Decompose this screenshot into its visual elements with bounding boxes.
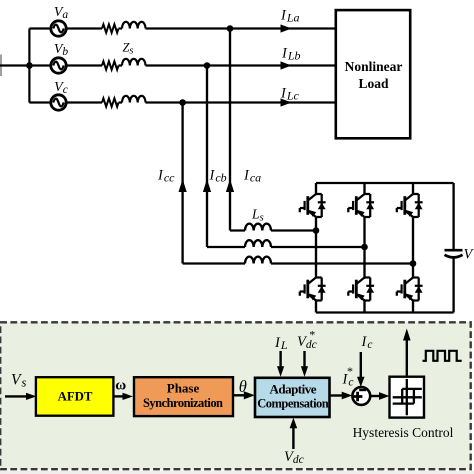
svg-text:Hysteresis Control: Hysteresis Control [353,425,454,440]
wire: IL input arrow [279,351,281,369]
wire: Ic input arrow [360,352,362,379]
svg-text:Icb: Icb [209,168,227,185]
wire: filter row 2 [207,246,365,248]
wire: feed from left edge to bus [0,64,29,66]
wire: leg 2 [363,183,365,313]
arrow Icb up [203,179,211,192]
svg-text:ILc: ILc [280,86,300,103]
inductor Ls row 2 [245,240,271,247]
control panel background [0,322,472,470]
wire: Vdc* input arrow [303,351,305,369]
arrow ILa [281,24,292,32]
wire: inverter top rail [316,182,454,184]
wire: dropper Ica [229,29,231,231]
svg-text:Synchronization: Synchronization [143,396,223,410]
wire: Phase to Adaptive arrow [232,394,245,396]
transistor Q2 bottom leg1 [300,278,326,301]
node phase a tap [227,25,234,32]
wire: bus to Vc [29,101,49,103]
arrow Ica up [226,179,234,192]
wire: phase c line [68,101,336,103]
resistor-inductor Zs phase c [102,96,146,107]
wire: phase b line [68,64,336,66]
node leg2 mid [361,244,368,251]
wire: bus to Va [29,27,49,29]
svg-text:Load: Load [358,76,389,91]
transistor Q3 top leg2 [348,194,374,217]
wire: Adaptive to sum arrow [330,394,343,396]
svg-text:Phase: Phase [167,381,200,396]
svg-text:ω: ω [115,378,126,394]
wire: hysteresis output arrow up [406,338,408,376]
wire: dropper Icc [181,103,183,264]
block hysteresis control [390,377,425,418]
wire: AFDT to Phase arrow [113,395,124,397]
wire: Vs input arrow [5,395,27,397]
capacitor Cdc [445,249,463,252]
transistor Q5 top leg3 [397,194,423,217]
arrow ILb [281,61,292,69]
svg-text:Ica: Ica [243,168,261,185]
resistor-inductor Zs phase b [102,59,146,70]
svg-text:Compensation: Compensation [257,397,329,411]
svg-text:Icc: Icc [157,168,175,185]
wire: leg 1 [315,183,317,313]
svg-text:Nonlinear: Nonlinear [345,59,403,74]
node phase b tap [204,62,211,69]
wire: filter row 1 [230,229,316,231]
wire: bus to Vb [29,64,49,66]
summing junction [352,387,370,405]
hysteresis symbol [393,379,422,415]
svg-text:AFDT: AFDT [58,389,93,403]
svg-text:IL: IL [274,335,288,352]
wire: right rail [452,183,454,313]
source Vb [51,58,66,73]
node phase c tap [179,99,186,106]
svg-text:ILa: ILa [280,8,300,25]
source Va [51,21,66,36]
nonlinear load box [336,10,410,138]
transistor Q1 top leg1 [300,194,326,217]
transistor Q4 bottom leg2 [348,278,374,301]
wire: Vdc input arrow up [292,425,294,449]
bottom edge strip [0,471,474,474]
arrow Icc up [179,179,187,192]
svg-text:ILb: ILb [281,46,301,63]
square wave icon [423,351,462,361]
wire: dropper Icb [206,66,208,248]
wire: leg 3 [412,183,414,313]
block Phase Synchronization [134,377,233,416]
block Adaptive Compensation [255,378,330,417]
wire: inverter bottom rail [316,311,454,313]
node leg3 mid [410,260,417,267]
svg-text:Adaptive: Adaptive [270,382,317,397]
node leg1 mid [313,227,320,234]
inductor Ls row 3 [245,257,271,264]
wire: filter row 3 [183,262,413,264]
wire: phase a line [68,27,336,29]
node: bus junction [26,62,33,69]
wire: sum to hysteresis arrow [370,395,382,397]
transistor Q6 bottom leg3 [397,278,423,301]
resistor-inductor Zs phase a [102,22,146,33]
wire: source bus vertical [28,29,30,103]
block AFDT [36,377,114,416]
arrow ILc [281,98,292,106]
source Vc [51,95,66,110]
grey edge stub [0,55,2,77]
control panel dashed border [0,322,471,469]
inductor Ls row 1 [245,224,271,231]
